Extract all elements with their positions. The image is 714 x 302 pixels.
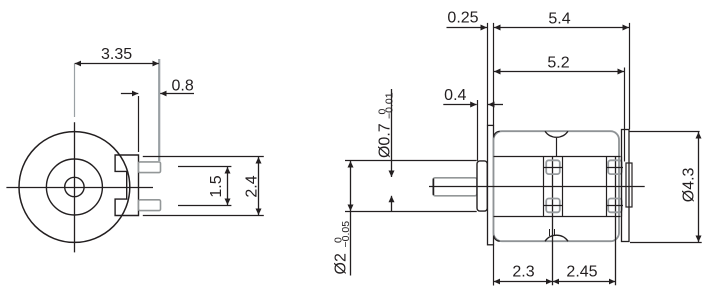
dim 5.2 bbox=[624, 68, 626, 162]
svg-text:−0.01: −0.01 bbox=[384, 92, 396, 119]
wire: shaft center line bbox=[429, 186, 645, 188]
svg-text:5.2: 5.2 bbox=[547, 54, 569, 71]
wire: column A lead wires bbox=[549, 229, 551, 236]
node outer-circle: motor body front bbox=[19, 132, 130, 243]
dim 2.3 / 2.45 bbox=[493, 245, 495, 286]
svg-text:0.8: 0.8 bbox=[171, 78, 193, 95]
svg-text:2.3: 2.3 bbox=[512, 264, 534, 281]
wire: internal line bottom bbox=[494, 216, 621, 218]
svg-text:Ø2: Ø2 bbox=[333, 253, 350, 274]
svg-text:−0.05: −0.05 bbox=[340, 221, 352, 248]
node end-cap bbox=[622, 130, 630, 242]
wire: dimple connector bbox=[556, 138, 558, 157]
node pin1-front bbox=[139, 162, 161, 173]
node shaft-end bbox=[433, 179, 435, 196]
dim 2.4 bbox=[143, 156, 264, 158]
dim dia4.3 bbox=[629, 131, 700, 133]
wire: horizontal center line bbox=[6, 187, 153, 189]
node terminal B1 bbox=[608, 160, 622, 174]
svg-text:Ø4.3: Ø4.3 bbox=[681, 167, 698, 202]
svg-text:0.25: 0.25 bbox=[447, 9, 478, 26]
node terminal A1 bbox=[546, 160, 560, 174]
svg-text:0.4: 0.4 bbox=[444, 87, 466, 104]
svg-text:2.45: 2.45 bbox=[566, 264, 597, 281]
dim 0.8 bbox=[138, 96, 140, 152]
wire: terminal column B center bbox=[615, 157, 617, 286]
dim 1.5 bbox=[178, 166, 231, 168]
wire: terminal column A center bbox=[552, 157, 554, 286]
node can bbox=[494, 131, 620, 241]
node can-corner-bl bbox=[494, 236, 500, 242]
node shaft-circle bbox=[65, 177, 84, 196]
svg-text:2.4: 2.4 bbox=[244, 175, 261, 197]
svg-text:5.4: 5.4 bbox=[548, 11, 570, 28]
dim 0.4 bbox=[477, 100, 479, 161]
node mid-circle bbox=[46, 159, 102, 215]
node dimple-top bbox=[545, 131, 568, 137]
dim 3.35 bbox=[74, 64, 76, 118]
wire: vertical center line bbox=[74, 122, 76, 252]
svg-text:1.5: 1.5 bbox=[208, 175, 225, 197]
wire: column A edges bbox=[543, 157, 545, 217]
wire: internal line top bbox=[494, 156, 621, 158]
dim 5.4 bbox=[629, 23, 631, 129]
node flange bbox=[488, 125, 494, 244]
wire: terminal cross lines bbox=[544, 167, 563, 169]
wire: column B edges bbox=[606, 157, 608, 217]
svg-text:3.35: 3.35 bbox=[101, 46, 132, 63]
dim 0.25 bbox=[487, 23, 489, 126]
node terminal B2 bbox=[608, 199, 622, 213]
node rear-tab bbox=[626, 163, 632, 207]
node shaft bbox=[433, 178, 477, 196]
node bushing bbox=[477, 161, 487, 211]
dim dia0.7 bbox=[391, 89, 393, 177]
node pin2-front bbox=[139, 200, 161, 211]
node can-corner-tl bbox=[494, 131, 500, 137]
dim dia2 bbox=[345, 160, 477, 162]
node terminal-block-front bbox=[115, 155, 138, 216]
node dimple-bottom bbox=[545, 235, 568, 241]
node terminal A2 bbox=[546, 199, 560, 213]
svg-text:Ø0.7: Ø0.7 bbox=[376, 123, 393, 158]
